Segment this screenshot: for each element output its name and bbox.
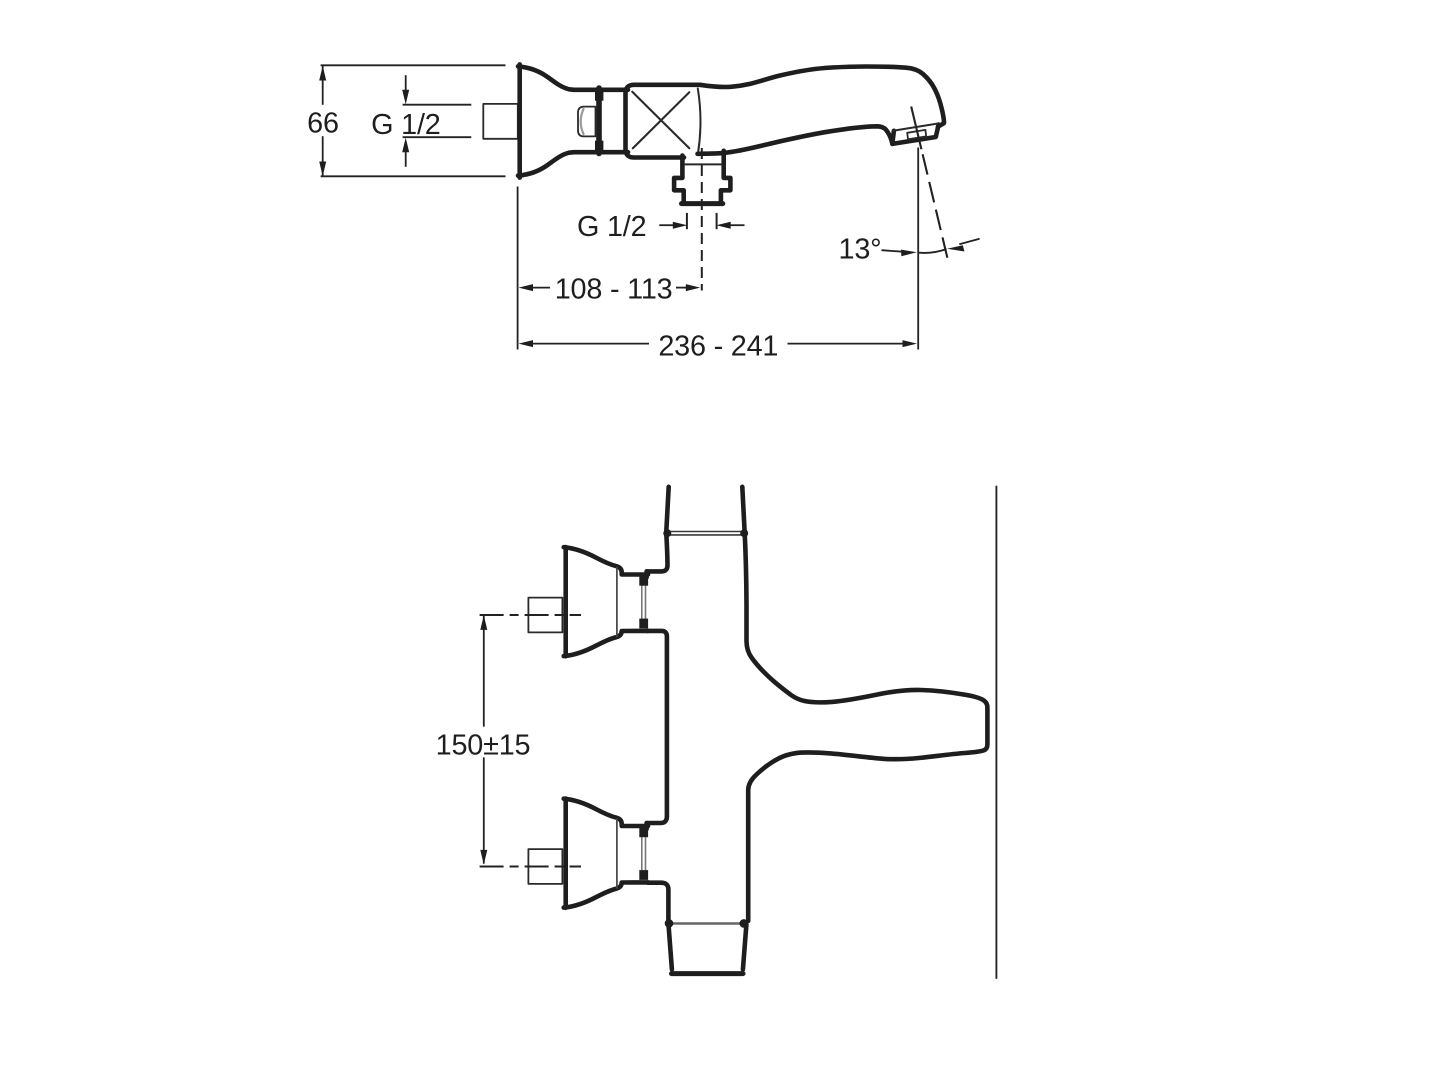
svg-text:G 1/2: G 1/2 (577, 211, 646, 243)
body left edge lower (648, 883, 668, 921)
13-degree far tail (959, 239, 979, 245)
top handle bell face line (thin) (616, 568, 618, 637)
cap bottom edge (672, 971, 744, 976)
neck square inner shading arc (581, 109, 584, 134)
dim G 1/2 outlet arrow-left (716, 222, 730, 229)
svg-text:236 - 241: 236 - 241 (658, 331, 778, 363)
aerator top seam (thin) (894, 124, 937, 131)
outlet fitting flange seam (thin) (685, 163, 722, 165)
13-degree dashed stream line (911, 107, 921, 150)
dim 150 vertical line upper segment (483, 616, 485, 726)
cap left edge (669, 925, 672, 970)
dim G 1/2 inlet lower line (403, 136, 472, 138)
body left edge mid between handles (647, 631, 667, 823)
aerator insert thin rectangle (907, 130, 926, 139)
cap joint end dots (665, 919, 674, 928)
dim 66 arrow up (319, 66, 326, 81)
dim 66 arrow down (319, 162, 326, 177)
wall inlet pipe G 1/2 (side view, thin rectangle) (483, 104, 518, 139)
bottom handle bell face line (thin) (616, 819, 618, 888)
bottom handle bell bottom contour (564, 882, 648, 907)
X diagonal 2 (633, 92, 690, 148)
dim G 1/2 outlet tick left (686, 213, 688, 229)
body shoulder step connector (bottom handle) (644, 823, 649, 829)
dim 236-241 arrow-right (903, 340, 918, 347)
X diagonal 1 (632, 92, 689, 149)
dim G 1/2 inlet arrow-up tail (405, 151, 407, 167)
dim G 1/2 outlet right tail (729, 224, 745, 226)
svg-text:150±15: 150±15 (436, 730, 531, 762)
body top-left edge (666, 487, 668, 532)
wall reference line (front view) (995, 486, 997, 978)
escutcheon bell left edge (side view) (517, 64, 522, 177)
top handle thread rectangle (528, 598, 562, 633)
dim 108-113 arrow-right (686, 284, 701, 291)
body right edge and spout (front view) (745, 531, 988, 921)
dim G 1/2 inlet upper line (403, 104, 472, 106)
spout top contour (side view) (700, 67, 944, 127)
dim G 1/2 inlet arrow-down tail (405, 75, 407, 91)
dim 66 bottom extension line (321, 175, 506, 177)
neck joint bar (596, 88, 602, 154)
dim 108-113 line right segment (676, 287, 687, 289)
bottom handle thread rectangle (528, 849, 562, 884)
escutcheon bell bottom contour (518, 152, 628, 175)
dim 66 vertical line upper segment (322, 66, 324, 105)
outlet fitting right profile (721, 151, 731, 202)
bottom handle bell top contour (564, 799, 648, 826)
top handle stem joint (double thin) (641, 584, 643, 619)
dim 236-241 line left segment (531, 343, 649, 345)
dim 150 vertical line lower segment (483, 758, 485, 863)
top handle bell left edge (563, 547, 568, 656)
outlet fitting dashed axis (701, 148, 703, 291)
extension line at spout outlet (917, 148, 919, 350)
dim 150 arrow down (480, 850, 487, 865)
cap right edge (743, 925, 747, 970)
outlet fitting bottom cap (682, 201, 723, 206)
valve body X-box (thick top/left/bottom) (626, 85, 701, 158)
13-degree leader line (882, 250, 903, 252)
dim G 1/2 inlet arrow-down (402, 90, 409, 105)
top handle bell bottom contour (564, 631, 648, 656)
13-degree leader arrow (901, 250, 917, 257)
dim G 1/2 outlet tick right (716, 213, 718, 229)
13-degree far arrow (947, 245, 964, 251)
X-box thin right edge (698, 89, 701, 155)
bottom handle stem joint (double thin) (641, 835, 643, 870)
svg-text:66: 66 (307, 108, 339, 140)
svg-text:G 1/2: G 1/2 (371, 109, 440, 141)
dim G 1/2 inlet arrow-up (402, 138, 409, 153)
dim 236-241 line right segment (788, 343, 905, 345)
svg-text:13°: 13° (839, 234, 882, 266)
outlet fitting left profile (674, 156, 684, 202)
top handle axis (dash-dot) (480, 614, 581, 616)
bottom handle stem joint blobs (639, 828, 648, 837)
spout bottom contour (side view) (698, 126, 893, 154)
body top-right edge (742, 487, 744, 532)
svg-text:108 - 113: 108 - 113 (555, 273, 673, 305)
dim 108-113 arrow-left (519, 284, 534, 291)
body shoulder step connector (top handle) (644, 571, 649, 577)
dim 236-241 arrow-left (519, 340, 534, 347)
escutcheon bell top contour (518, 66, 628, 89)
top handle bell top contour (564, 547, 648, 574)
dim G 1/2 outlet arrow-right (673, 222, 687, 229)
extension line under escutcheon (517, 187, 519, 350)
body top joint end dots (663, 529, 671, 537)
body top joint seam (double thin) (667, 531, 744, 533)
neck small square (thin, rounded left) (578, 107, 596, 137)
aerator housing (thick right/bottom/left) (892, 125, 938, 144)
bottom handle axis (dash-dot) (480, 865, 581, 867)
dim 66 vertical line lower segment (322, 136, 324, 176)
dim 150 arrow up (480, 615, 487, 630)
dim 66 top extension line (321, 64, 506, 66)
body left edge upper with shoulder (647, 534, 668, 572)
cap joint seam (671, 922, 742, 925)
dim 108-113 line left segment (531, 287, 550, 289)
dim G 1/2 outlet left tail (659, 224, 674, 226)
top handle stem joint blobs (639, 576, 648, 585)
bottom handle bell left edge (563, 799, 568, 908)
13-degree angle arc (919, 249, 947, 253)
